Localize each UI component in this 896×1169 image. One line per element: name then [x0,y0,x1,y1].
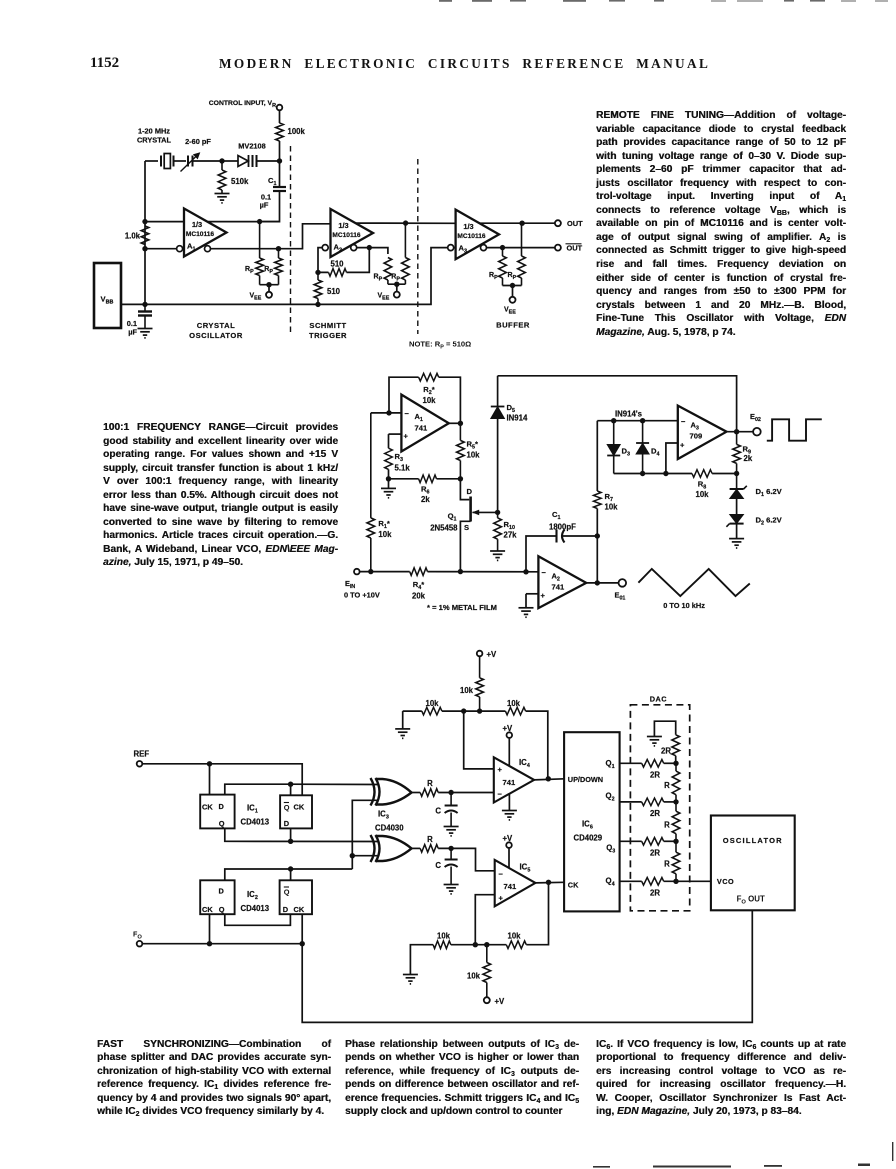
svg-text:C1: C1 [552,510,560,521]
svg-text:741: 741 [503,778,516,787]
junction [663,471,668,476]
wire IC5 output to CK [535,881,564,884]
wire IC2 CK [209,914,211,944]
svg-text:0 TO 10 kHz: 0 TO 10 kHz [663,601,705,610]
wire Q3 [620,840,642,842]
svg-text:2R: 2R [650,771,660,780]
svg-text:VCO: VCO [717,877,734,886]
resistor 2R Q2 [642,798,664,806]
svg-text:µF: µF [260,201,269,210]
svg-text:R4*: R4* [413,580,424,591]
wire R2 feedback loop [389,377,419,413]
resistor R7 10k [594,491,602,509]
svg-text:E02: E02 [750,412,761,423]
ground [138,329,153,338]
svg-text:741: 741 [504,882,517,891]
svg-text:CRYSTAL: CRYSTAL [197,321,236,330]
wire [664,801,676,803]
svg-text:FO: FO [133,930,142,941]
wire [279,141,281,161]
junction [734,429,739,434]
svg-text:0 TO +10V: 0 TO +10V [344,591,380,600]
svg-text:D: D [467,487,473,496]
resistor R10 27k [497,512,499,518]
ground [502,811,517,820]
svg-text:CK: CK [294,803,305,812]
svg-text:10k: 10k [467,972,481,981]
waveform square wave output [767,419,822,440]
junction [448,846,453,851]
resistor 100k [276,123,284,141]
ECL gate A1 1/3 MC10116 [184,209,227,257]
svg-text:D: D [219,802,225,811]
capacitor 0.1uF bypass [144,304,146,311]
wire [121,303,145,305]
resistor 10k to +V [486,945,488,963]
svg-text:RP: RP [489,272,498,281]
ECL gate A2 1/3 MC10116 [331,209,374,257]
svg-text:R3: R3 [395,452,403,463]
svg-text:510: 510 [330,260,344,269]
terminal +V IC4 [507,732,513,738]
wire A3 output [727,431,754,433]
wire to IC4 inverting input [438,792,494,794]
wire A3 non-inverting input [666,443,678,474]
wire C1 branch [526,536,557,572]
junction [315,270,320,275]
junction [142,219,147,224]
svg-text:R7: R7 [605,492,613,503]
wire to R3 [388,434,390,448]
wire VBB bus [145,248,448,305]
diode D4 [642,421,644,443]
terminal E02 [753,428,761,436]
svg-text:CK: CK [568,881,579,890]
svg-text:A2: A2 [552,572,560,583]
wire [563,535,598,537]
svg-text:+V: +V [495,997,506,1006]
resistor R2 10k [419,373,439,381]
svg-text:Q4: Q4 [606,877,615,888]
terminal OUT [555,220,561,226]
ground [395,729,410,738]
svg-text:Q: Q [219,905,225,914]
svg-text:R1*: R1* [378,519,389,530]
svg-text:−: − [542,568,547,577]
resistor RP (A1 pull-down left) [259,222,261,258]
svg-text:R2*: R2* [423,385,434,396]
junction [640,418,645,423]
resistor R6 2k [419,475,437,483]
bubble A2 inverting input [322,245,328,251]
op-amp A1 741 [401,395,448,452]
svg-text:IC3: IC3 [378,810,389,821]
flip-flop IC2a [200,880,234,914]
wire IC2 Q-bar to XOR inputs [352,800,379,869]
svg-text:IC2: IC2 [247,890,258,901]
junction [257,219,262,224]
junction [611,418,616,423]
svg-text:OSCILLATOR: OSCILLATOR [723,836,783,845]
junction [640,471,645,476]
resistor 10k pull-up [479,656,481,678]
scan artifact marks top edge [439,0,825,2]
wire to ground [410,945,433,975]
wire [675,756,677,764]
svg-text:A3: A3 [459,244,467,255]
junction [673,839,678,844]
junction [461,708,466,713]
wire OUT [479,222,554,224]
terminal F0 [137,941,143,947]
junction [219,158,224,163]
junction [673,879,678,884]
source VBB [94,263,121,328]
wire top feedback line to E02 node [498,376,737,432]
svg-text:A3: A3 [691,421,699,432]
junction [448,790,453,795]
svg-text:510k: 510k [231,177,249,186]
ground [490,551,505,560]
svg-text:R10: R10 [504,520,515,531]
wire IC5 feedback [526,882,548,944]
wire [439,377,461,423]
ground [519,608,534,617]
svg-text:5.1k: 5.1k [395,464,411,473]
resistor 10k to ground [422,707,442,715]
caption: FAST SYNCHRONIZING column 2 [345,1038,579,1119]
junction [386,476,391,481]
zener diode D2 6.2V [726,515,743,527]
wire to XOR2 input [352,855,379,857]
svg-text:VEE: VEE [504,307,516,316]
op-amp A2 741 [538,556,586,608]
junction [368,569,373,574]
junction [495,510,500,515]
svg-text:2k: 2k [421,495,430,504]
svg-text:DAC: DAC [650,695,668,704]
svg-text:1/3: 1/3 [463,222,473,231]
svg-text:27k: 27k [504,531,518,540]
wire [736,499,738,515]
DAC dashed outline [630,705,689,911]
terminal VEE [394,292,400,298]
wire IC2 D to Q-bar coupling [225,869,352,880]
wire A2 output [586,582,618,584]
wire OUT-bar [486,247,555,249]
svg-text:R: R [664,860,670,869]
page header: book title [219,56,710,72]
svg-text:+V: +V [503,724,514,733]
svg-text:Q1: Q1 [448,512,457,523]
resistor 10k feedback IC5 [506,941,526,949]
svg-text:IC1: IC1 [247,804,258,815]
wire [279,161,281,187]
svg-text:Q: Q [284,803,290,812]
svg-text:R: R [664,781,670,790]
wire [193,160,223,162]
svg-text:R5*: R5* [467,440,478,451]
svg-text:20k: 20k [412,592,426,601]
wire [412,792,421,794]
svg-text:D: D [219,887,225,896]
svg-text:MC10116: MC10116 [457,233,486,240]
wire [144,161,146,304]
svg-text:VBB: VBB [101,295,114,306]
svg-text:E01: E01 [615,591,626,602]
ground [647,737,662,746]
svg-text:10k: 10k [695,490,709,499]
terminal +V [484,997,490,1003]
svg-text:741: 741 [552,583,565,592]
svg-text:2-60 pF: 2-60 pF [185,137,211,146]
wire input A1 [145,221,184,223]
varactor diode MV2108 [238,155,249,167]
dashed separator crystal-oscillator/schmitt-trigger [290,146,292,333]
junction [595,533,600,538]
wire [664,840,676,842]
capacitor C1 0.1uF [273,187,286,191]
resistor 2R Q4 [642,878,664,886]
terminal +V IC5 [506,842,512,848]
wire A1 inverted output to A2 [210,224,330,249]
wire A2 non-inverting input [526,593,538,595]
wire [360,571,410,573]
svg-text:10k: 10k [437,932,451,941]
svg-text:10k: 10k [460,686,474,695]
junction [207,761,212,766]
wire to IC1b D [290,828,292,841]
wire [526,711,548,779]
svg-text:1.0k: 1.0k [125,232,141,241]
resistor R (upper) [420,789,438,797]
svg-text:−: − [405,409,410,418]
resistor 510k [221,161,223,170]
ECL gate A3 1/3 MC10116 [456,210,499,260]
terminal VEE [266,292,272,298]
svg-text:2R: 2R [650,889,660,898]
svg-text:REF: REF [134,750,150,759]
svg-text:Q3: Q3 [606,844,615,855]
svg-text:OUT: OUT [567,244,583,253]
svg-text:RP: RP [245,266,254,275]
svg-text:S: S [464,523,469,532]
wire to IC5 inverting input [438,848,495,870]
page header: page number [90,55,119,72]
svg-text:IC5: IC5 [520,863,531,874]
capacitor [445,860,458,868]
svg-text:Q: Q [219,819,225,828]
svg-text:C: C [435,861,441,870]
junction [394,282,399,287]
terminal +V [477,651,483,657]
wire A1 non-inverting input [389,433,402,435]
svg-text:NOTE: RP = 510Ω: NOTE: RP = 510Ω [409,340,471,351]
junction [458,569,463,574]
svg-text:MC10116: MC10116 [186,231,215,238]
junction [673,761,678,766]
wire [712,473,737,475]
wire IN914 line left end [596,421,598,491]
wire Q4 to VCO [664,880,711,882]
svg-text:100k: 100k [288,127,306,136]
diode D3 [613,421,615,445]
junction [500,245,505,250]
wire [279,110,281,123]
wire [260,191,280,222]
svg-text:CD4013: CD4013 [241,818,270,827]
svg-text:1800pF: 1800pF [549,523,576,532]
XOR gate IC3b CD4030 [371,835,412,862]
wire to IC1 CK [209,764,211,795]
wire inverting input A1 [145,248,177,250]
wire Q1 drain [460,479,469,500]
svg-text:D: D [283,905,289,914]
svg-text:1/3: 1/3 [192,220,202,229]
wire A2 feedback [347,248,370,273]
wire A2 output to A3 [356,222,456,224]
waveform triangle output [638,569,749,596]
svg-text:* = 1% METAL FILM: * = 1% METAL FILM [427,603,497,612]
wire [512,286,514,298]
junction [473,942,478,947]
svg-text:FO OUT: FO OUT [737,895,765,906]
svg-text:+V: +V [487,650,498,659]
svg-text:CK: CK [202,803,213,812]
junction [673,799,678,804]
terminal E01 [619,579,627,587]
wire IC1 Q line [225,828,379,841]
ground [215,194,230,203]
wire [388,479,390,489]
wire D5 branch [497,376,499,407]
resistor 2R Q3 [642,838,664,846]
svg-text:D5: D5 [507,403,515,414]
resistor R ladder 3 [672,852,680,874]
capacitor C1 1800pF [557,530,565,543]
wire [451,944,507,946]
wire Fo OUT return to F0 line [302,910,752,1022]
svg-text:+: + [680,441,685,450]
wire to ground [525,594,527,608]
bubble A1 inverting input [177,246,183,252]
terminal CONTROL INPUT, VR [277,105,283,111]
terminal REF [137,761,143,767]
svg-text:+V: +V [503,834,514,843]
svg-text:C: C [435,807,441,816]
wire [508,738,510,766]
svg-text:EIN: EIN [345,579,355,590]
crystal Y1 1-20 MHz [161,154,174,169]
wire IC1 D to Q-bar coupling [225,784,291,794]
caption: 100:1 FREQUENCY RANGE [103,421,338,570]
svg-text:Q: Q [284,888,290,897]
junction [595,580,600,585]
svg-text:+: + [498,765,503,774]
resistor 1.0k [141,226,149,245]
junction [734,471,739,476]
junction [315,302,320,307]
junction [266,282,271,287]
junction [142,302,147,307]
svg-text:MC10116: MC10116 [332,232,361,239]
XOR gate IC3a CD4030 [371,778,412,806]
svg-text:CD4029: CD4029 [574,834,603,843]
resistor RP (A1 pull-down right) [278,249,280,258]
wire [736,524,738,539]
junction [403,220,408,225]
diode D5 IN914 [491,407,505,419]
wire [664,762,676,764]
junction [484,942,489,947]
ground [444,827,459,836]
terminal VEE [510,297,516,303]
resistor R8 10k [692,470,712,478]
wire [222,160,238,162]
scan artifact marks bottom edge [593,1142,893,1168]
resistor R9 2k [736,432,738,445]
wire F0 line [142,943,302,945]
wire ladder top to ground [654,721,675,736]
wire Q1 gate with arrow [473,511,498,513]
resistor 10k to ground [433,941,451,949]
wire [503,285,522,287]
bubble A3 complementary output [481,245,487,251]
wire [145,160,158,162]
svg-text:1-20 MHz: 1-20 MHz [138,127,170,136]
IC6 CD4029 up/down counter [564,732,620,911]
svg-text:−: − [498,790,503,799]
resistor 2R top [672,735,680,756]
wire to A2 inverting input [318,248,329,273]
wire [260,284,279,286]
wire A1 inverting input [371,412,402,414]
svg-text:Q2: Q2 [606,792,615,803]
svg-text:CK: CK [202,905,213,914]
svg-text:MV2108: MV2108 [238,142,266,151]
wire [396,284,398,292]
junction [458,476,463,481]
junction [288,782,293,787]
junction [510,283,515,288]
resistor R3 5.1k [385,448,393,469]
junction [519,221,524,226]
svg-text:RP: RP [374,274,383,283]
junction [477,708,482,713]
wire [596,536,598,583]
svg-text:CD4013: CD4013 [241,904,270,913]
svg-text:VEE: VEE [250,293,262,302]
ground [381,488,396,497]
capacitor [445,806,458,814]
svg-text:IC4: IC4 [519,758,530,769]
wire [508,848,510,869]
resistor R5 10k [459,423,461,440]
ground [403,975,418,984]
op-amp A3 709 [678,406,727,459]
capacitor C (upper) [450,793,452,806]
caption: FAST SYNCHRONIZING column 3 [596,1038,846,1119]
junction [546,776,551,781]
wire [290,869,292,880]
flip-flop IC1b [280,795,312,828]
resistor R (lower) [420,845,438,853]
svg-text:D1 6.2V: D1 6.2V [756,487,783,498]
wire IC2b CK [301,914,303,944]
wire to ground [402,711,404,729]
resistor 10k feedback IC4 [505,707,525,715]
capacitor C (lower) [450,848,452,859]
